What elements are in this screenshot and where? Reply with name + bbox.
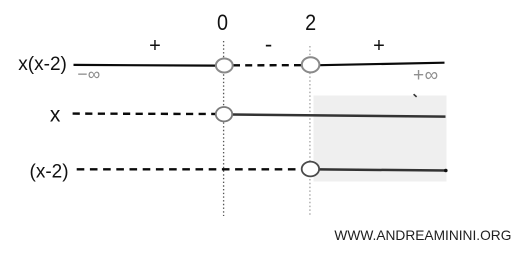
- row 3 solid segment right: [319, 169, 446, 170]
- row 1 solid segment right: [320, 63, 445, 65]
- row 3 dashed segment left: [77, 168, 302, 170]
- open circle row 1 at 2: [302, 57, 320, 72]
- svg-text:x: x: [50, 103, 61, 126]
- svg-text:2: 2: [305, 11, 316, 35]
- svg-text:+∞: +∞: [413, 65, 439, 86]
- svg-text:-: -: [265, 32, 272, 57]
- dotted guide line at 2: [309, 46, 311, 216]
- open circle row 3 at 2: [302, 162, 319, 177]
- shaded region x>2: [314, 96, 447, 182]
- row 1 dashed segment middle: [233, 64, 302, 67]
- row 2 solid segment right: [232, 115, 445, 117]
- svg-text:−∞: −∞: [77, 64, 100, 84]
- open circle row 1 at 0: [216, 59, 233, 73]
- dotted guide line at 0: [223, 41, 225, 216]
- svg-text:+: +: [373, 35, 385, 57]
- svg-text:x(x-2): x(x-2): [18, 54, 67, 75]
- svg-text:WWW.ANDREAMININI.ORG: WWW.ANDREAMININI.ORG: [334, 227, 511, 243]
- row 3 line end dot: [444, 169, 448, 173]
- svg-text:0: 0: [217, 11, 228, 35]
- open circle row 2 at 0: [216, 107, 232, 121]
- tick mark on shaded region top edge: [414, 94, 417, 97]
- row 1 solid segment left: [74, 64, 217, 67]
- row 2 dashed segment left: [73, 112, 216, 115]
- svg-text:+: +: [149, 35, 161, 57]
- svg-text:(x-2): (x-2): [30, 162, 69, 183]
